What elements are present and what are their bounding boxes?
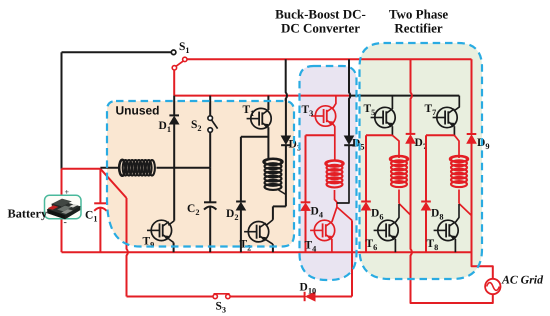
label T1 (243, 104, 255, 118)
AC grid source (485, 279, 500, 294)
transistor T3 (red) (311, 106, 336, 126)
svg-text:Rectifier: Rectifier (394, 21, 443, 36)
wire D3 vertical upper with hop (286, 59, 287, 101)
inductor L3 vertical (red coil) (325, 160, 343, 187)
label D10 (300, 282, 317, 296)
wire S3 to D10 (230, 296, 305, 298)
wire C1 branch upper (99, 169, 101, 204)
wire battery top (62, 168, 101, 170)
label T8 (427, 238, 439, 252)
label T5 (364, 103, 376, 117)
wire left black vertical (61, 52, 63, 169)
wire T5 collector drop (391, 96, 393, 109)
inductor L5 vertical (red coil) (450, 156, 468, 187)
label Two Phase title line2 (394, 21, 443, 36)
wire S2 lower (209, 132, 211, 168)
capacitor C1 (94, 203, 106, 211)
label Unused (116, 104, 160, 118)
label S1 (179, 41, 190, 55)
switch S3 contacts (213, 294, 230, 298)
inductor L1 (black coil) (119, 160, 155, 176)
wire T7 emitter (453, 126, 455, 135)
transistor T7 (433, 107, 458, 127)
dashed border unused region (107, 101, 294, 247)
wire phase2 to D8 (426, 134, 454, 136)
label C1 (85, 210, 97, 224)
wire T1 emitter down (267, 127, 269, 159)
label D4 (311, 206, 323, 220)
svg-text:-: - (64, 217, 67, 228)
black divider with hop / D5 upper (349, 59, 350, 136)
label S3 (216, 301, 227, 315)
wire T6 emitter to bus (394, 239, 396, 252)
wire D4 lower to bus (305, 211, 307, 253)
inductor L2 vertical (black coil) (263, 159, 282, 190)
transistor T8 (434, 220, 459, 240)
diode D4 (points up) (301, 202, 311, 210)
label T6 (366, 238, 378, 252)
wire bottom branch left (127, 296, 213, 298)
label T7 (425, 103, 437, 117)
diode D3 (points down) (281, 136, 291, 145)
dashed border rectifier region (360, 43, 483, 279)
wire D2 to bus (240, 210, 242, 252)
wire mid red bus (174, 95, 349, 97)
wire bottom main bus (62, 251, 472, 253)
switch S2 blade (212, 120, 218, 129)
transistor T4 (red) (310, 220, 335, 240)
wire T6 collector black (395, 204, 399, 223)
label AC Grid (501, 273, 544, 287)
label D1 (159, 120, 171, 134)
inductor L1 lead right (157, 167, 211, 169)
wire diagonal battery to lower branch (100, 169, 126, 198)
wire T4 emitter to bus (331, 239, 333, 252)
wire mid black bus (rectifier) (349, 95, 459, 97)
wire S1 to top red bus (187, 58, 472, 60)
wire riser to buck-boost node (351, 220, 353, 296)
diode D8 (points up) (421, 202, 431, 211)
wire T3 collector (333, 96, 336, 109)
wire L4 diagonal to AC return line (399, 204, 411, 216)
svg-text:AC Grid: AC Grid (501, 273, 544, 287)
label T4 (305, 240, 317, 254)
wire L5 bottom (458, 190, 460, 204)
label Two Phase title line1 (389, 7, 449, 22)
wire node diagonal to riser (337, 207, 352, 220)
wire D9 vertical upper (471, 59, 473, 134)
transistor T5 (371, 107, 396, 127)
wire phase1 to D6 (366, 134, 392, 136)
wire T7 collector corner (455, 96, 460, 111)
svg-text:DC Converter: DC Converter (281, 21, 360, 36)
svg-text:Unused: Unused (116, 104, 160, 118)
wire T2 emitter to bus (266, 240, 273, 253)
label Buck-Boost title line1 (275, 7, 366, 22)
transistor T6 (374, 220, 399, 240)
wire D9 lower to AC hot (472, 144, 493, 279)
wire T9 emitter to bus (169, 239, 174, 252)
buck-boost converter region (lavender background) (300, 66, 357, 280)
wire D3 lower (285, 145, 287, 206)
label D8 (431, 208, 443, 222)
svg-text:+: + (65, 188, 70, 197)
wire battery left vertical (61, 169, 63, 252)
wire S2 upper (209, 96, 211, 116)
wire L2 bottom diagonal (279, 190, 286, 195)
label D5 (352, 138, 364, 152)
svg-text:Battery: Battery (8, 207, 48, 221)
switch S2 contacts (208, 116, 213, 133)
label D3 (289, 139, 301, 153)
wire D7 line with hops (411, 59, 412, 134)
wire D5 lower hook (337, 145, 349, 203)
unused converter region (peach background) (107, 101, 294, 247)
wire D8 vertical (425, 135, 427, 201)
wire C2 upper (209, 168, 211, 203)
diode D7 (points up) (406, 134, 416, 144)
label T3 (302, 104, 314, 118)
label T9 (143, 236, 155, 250)
wire T1 emitter branch to D2 (241, 137, 269, 202)
transistor T9 (147, 220, 172, 240)
diode D5 (points down) (344, 136, 354, 145)
svg-text:Buck-Boost DC-: Buck-Boost DC- (275, 7, 366, 22)
wire T2 collector node (266, 206, 286, 225)
wire D8 lower to bus (425, 210, 427, 252)
wire D4 freewheel horizontal (306, 134, 335, 136)
wire C1 branch lower (99, 208, 101, 253)
label Buck-Boost title line2 (281, 21, 360, 36)
capacitor C2 (204, 202, 216, 209)
wire T4 collector diagonal (332, 207, 337, 222)
wire T3 emitter to coil (333, 124, 335, 161)
wire D4 vertical upper (305, 135, 307, 202)
transistor T2 (244, 222, 269, 242)
battery plus mark (65, 188, 70, 197)
label C2 (187, 203, 199, 217)
label S2 (191, 119, 202, 133)
switch S1 fixed contact (171, 50, 176, 55)
wire L5 diagonal to AC hot line (459, 204, 472, 216)
battery pack image frame (45, 195, 82, 218)
wire C2 lower (209, 207, 211, 253)
label D9 (477, 137, 489, 151)
battery pack photo (48, 199, 81, 219)
diode D2 (points up) (236, 202, 246, 211)
svg-text:Two Phase: Two Phase (389, 7, 449, 22)
wire L4 bottom (398, 190, 400, 204)
label Battery (8, 207, 48, 221)
wire D1 lower / T9 collector (168, 124, 174, 225)
wire D1 upper (173, 96, 175, 116)
diode D9 (points up) (467, 134, 477, 144)
inductor L4 vertical (red coil) (390, 156, 408, 187)
wire D10 to riser (315, 296, 352, 298)
label T2 (240, 239, 252, 253)
diode D1 (points up) (169, 115, 179, 124)
wire D3 vertical to diode (285, 99, 287, 136)
wire T1 collector to mid bus (267, 96, 269, 110)
wire phase1 to coil top (392, 135, 399, 158)
inductor L1 horizontal lead left (100, 167, 120, 169)
two-phase rectifier region (green background) (360, 43, 483, 279)
wire S1 down to mid bus (173, 70, 175, 96)
label D6 (371, 208, 383, 222)
wire top-left black bus (62, 51, 172, 53)
wire T5 emitter (391, 126, 393, 135)
label D2 (226, 208, 238, 222)
diode D6 (points up) (361, 202, 371, 211)
diode D10 (points left) (305, 292, 316, 301)
wire phase2 to coil top (454, 135, 459, 158)
transistor T1 (247, 108, 272, 128)
dashed border buck-boost region (300, 66, 357, 280)
wire D6 vertical (365, 135, 367, 201)
wire lower-left vertical with hop (127, 198, 128, 297)
wire D7 lower to AC return (411, 143, 493, 303)
switch S3 blade (214, 293, 230, 295)
label D7 (415, 137, 427, 151)
wire T8 emitter to bus (454, 239, 456, 252)
switch S1 red pole contacts (172, 57, 187, 70)
battery minus mark (64, 217, 67, 228)
wire T8 collector black (455, 204, 459, 223)
wire D6 lower to bus (365, 210, 367, 252)
wire L3 bottom to node (335, 190, 337, 207)
switch S1 blade (176, 61, 183, 66)
